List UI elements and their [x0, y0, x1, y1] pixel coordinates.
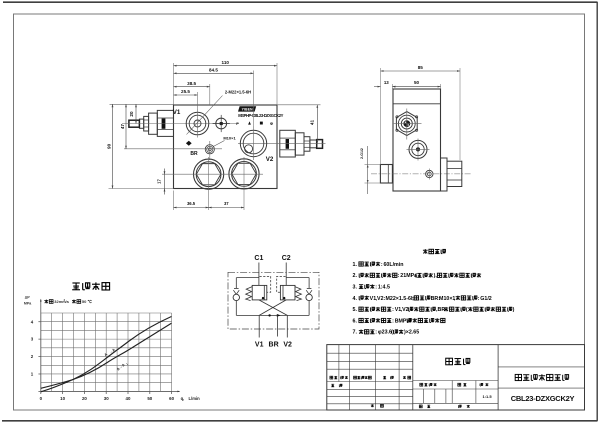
svg-text:1:1.5: 1:1.5 [482, 394, 492, 399]
svg-text:(: ( [415, 273, 417, 279]
svg-text:MSPHP-CBL23-DZXGCK2Y: MSPHP-CBL23-DZXGCK2Y [238, 113, 283, 118]
svg-text:BR: BR [190, 151, 198, 157]
svg-text:V1: V1 [255, 342, 264, 349]
svg-text:4.: 4. [353, 296, 358, 302]
svg-text:V2: V2 [266, 156, 274, 163]
svg-text:L/min: L/min [189, 396, 201, 401]
svg-text:50: 50 [414, 80, 420, 85]
svg-text:47: 47 [120, 124, 125, 130]
svg-text:38.5: 38.5 [187, 81, 196, 86]
svg-text:M22×1.5-6H: M22×1.5-6H [385, 296, 414, 302]
svg-text:5.: 5. [353, 307, 358, 313]
svg-text:q,: q, [181, 396, 185, 401]
svg-text:20: 20 [129, 111, 134, 117]
svg-text:C2: C2 [282, 255, 291, 262]
svg-text:6.: 6. [353, 318, 358, 324]
svg-text:25.5: 25.5 [181, 89, 190, 94]
svg-text:60: 60 [169, 396, 174, 401]
svg-text:50: 50 [147, 396, 152, 401]
svg-text:(: ( [466, 307, 468, 313]
svg-text:37: 37 [224, 201, 229, 206]
svg-text:φ23.6: φ23.6 [378, 330, 392, 336]
svg-text:P: P [236, 121, 239, 126]
svg-text:41: 41 [310, 120, 315, 126]
svg-text:17: 17 [157, 179, 162, 184]
svg-text:ΔP: ΔP [25, 296, 31, 300]
svg-text:3.: 3. [353, 285, 358, 291]
svg-text:C1: C1 [254, 255, 263, 262]
svg-text:V1: V1 [173, 109, 181, 116]
svg-text:13: 13 [384, 80, 389, 85]
svg-text:20: 20 [82, 396, 87, 401]
svg-text:10: 10 [60, 396, 65, 401]
svg-text:G1/2: G1/2 [480, 296, 492, 302]
svg-text:85: 85 [418, 65, 424, 70]
svg-text:2-G1/2: 2-G1/2 [360, 148, 364, 159]
svg-text:): ) [513, 307, 515, 313]
svg-text:℃: ℃ [87, 299, 92, 304]
svg-text:60L/min: 60L/min [383, 262, 403, 268]
svg-text:36.5: 36.5 [187, 201, 196, 206]
svg-text:84.5: 84.5 [209, 68, 218, 73]
svg-text:30: 30 [104, 396, 109, 401]
svg-text:V2:: V2: [377, 296, 385, 302]
svg-text:BR: BR [269, 342, 279, 349]
svg-text:×2.65: ×2.65 [406, 330, 419, 336]
svg-text:M10×1: M10×1 [223, 136, 236, 141]
svg-text:1:4.5: 1:4.5 [378, 285, 390, 291]
svg-text:50: 50 [82, 299, 87, 304]
svg-text:90: 90 [107, 143, 112, 149]
svg-text:2.: 2. [353, 273, 358, 279]
svg-text:(: ( [391, 330, 393, 336]
svg-text:YIBEN: YIBEN [242, 108, 253, 112]
svg-text:110: 110 [222, 60, 230, 65]
svg-text:V2: V2 [402, 307, 409, 313]
svg-text:MPa: MPa [24, 302, 32, 306]
svg-text:V2: V2 [283, 342, 292, 349]
svg-text:40: 40 [126, 396, 131, 401]
svg-text:7.: 7. [353, 330, 358, 336]
svg-text:2-M22×1.5-6H: 2-M22×1.5-6H [225, 90, 251, 95]
svg-text:1.: 1. [353, 262, 358, 268]
svg-text:CBL23-DZXGCK2Y: CBL23-DZXGCK2Y [511, 394, 575, 403]
